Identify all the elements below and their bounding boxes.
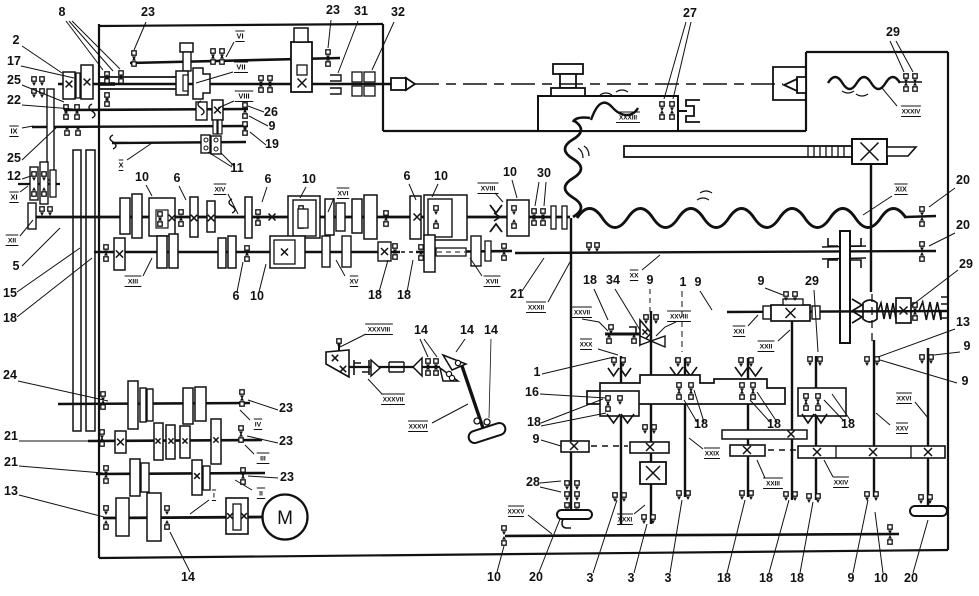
pedal <box>467 421 507 444</box>
svg-text:XXXI: XXXI <box>618 517 633 524</box>
svg-text:8: 8 <box>59 5 66 19</box>
svg-text:X: X <box>118 161 123 170</box>
diagonal shaft XXXVI <box>462 366 483 428</box>
svg-text:XXXV: XXXV <box>507 509 525 516</box>
shaft XXX line <box>605 333 641 336</box>
svg-text:20: 20 <box>956 173 970 187</box>
label 18 j <box>759 500 789 585</box>
svg-text:23: 23 <box>326 3 340 17</box>
svg-text:XXIX: XXIX <box>705 451 720 458</box>
gear on VII stepped <box>193 68 210 99</box>
shaft XXI line <box>727 311 947 312</box>
bevel wedge <box>326 350 349 377</box>
screws 28 <box>565 481 579 512</box>
screws 20 lower <box>920 242 924 261</box>
label 14 b <box>456 323 474 352</box>
label 9 b <box>695 275 712 310</box>
screws v4 top <box>676 358 690 367</box>
svg-text:13: 13 <box>956 315 970 329</box>
label 10 b <box>300 172 316 198</box>
gears XIII a <box>157 234 178 268</box>
label XIV <box>214 184 238 214</box>
shaft X right squiggle <box>229 199 235 213</box>
svg-text:6: 6 <box>233 289 240 303</box>
spring XXXIII <box>591 90 638 120</box>
label 9 hs <box>249 116 276 133</box>
svg-text:12: 12 <box>7 169 21 183</box>
clutch VIII X <box>212 100 223 134</box>
label 14 c <box>484 323 498 418</box>
label XXVIII <box>656 311 691 336</box>
label XXXII <box>526 262 570 313</box>
gears XIII d <box>322 236 351 267</box>
screws 25/22 <box>64 105 79 119</box>
shaft XIX end <box>906 216 936 217</box>
svg-text:XXXVIII: XXXVIII <box>368 327 391 334</box>
label 12 <box>7 169 31 183</box>
label XXII <box>758 330 790 352</box>
label 20 b1 <box>529 519 560 584</box>
svg-text:10: 10 <box>250 289 264 303</box>
label XXXVII <box>368 379 405 405</box>
label 15 <box>3 248 80 300</box>
svg-text:23: 23 <box>279 401 293 415</box>
svg-text:9: 9 <box>848 571 855 585</box>
label 29 r <box>911 257 973 306</box>
screws v8 top <box>865 357 879 366</box>
svg-text:32: 32 <box>391 5 405 19</box>
svg-text:34: 34 <box>606 273 620 287</box>
screws feed right <box>888 525 892 544</box>
label XXXIV <box>882 88 921 117</box>
label VI <box>226 31 245 57</box>
bevel cone right <box>413 358 422 376</box>
workpiece axis <box>415 83 783 85</box>
label I <box>190 490 216 514</box>
svg-text:14: 14 <box>414 323 428 337</box>
gear cluster XII b <box>149 198 183 236</box>
gear cluster XII i <box>414 195 468 240</box>
cone gear frame <box>587 375 785 404</box>
svg-text:XXVII: XXVII <box>574 310 591 317</box>
label 24 <box>3 368 108 401</box>
svg-text:XXII: XXII <box>760 344 773 351</box>
label 18 a <box>368 260 388 302</box>
shaft XII <box>32 216 570 219</box>
screws 27 <box>660 102 674 119</box>
label 25 b <box>7 128 56 165</box>
spring left <box>878 303 896 319</box>
screws 26 <box>259 76 272 92</box>
label 23 b <box>326 3 340 48</box>
motor M <box>263 495 308 540</box>
left block <box>600 391 639 416</box>
wall bearing flags <box>89 71 123 118</box>
label 10 d <box>503 165 517 198</box>
svg-text:23: 23 <box>141 5 155 19</box>
label XIX <box>863 184 908 215</box>
gears II <box>130 459 210 496</box>
shaft I <box>103 517 262 518</box>
svg-text:5: 5 <box>13 259 20 273</box>
clutch XIII e <box>378 242 397 261</box>
svg-text:XVIII: XVIII <box>481 186 496 193</box>
svg-text:M: M <box>277 508 293 529</box>
label 9 r1 <box>934 339 971 355</box>
vertical wavy shaft <box>565 118 590 217</box>
svg-text:18: 18 <box>3 311 17 325</box>
label XXI <box>733 315 758 337</box>
label 18 h <box>3 258 92 325</box>
label 10 e <box>250 264 266 303</box>
tailstock bolt collar <box>551 88 585 96</box>
label X <box>118 143 152 171</box>
label XIII <box>125 258 152 287</box>
barrel gear <box>863 300 877 322</box>
gear bar B <box>630 442 669 453</box>
label XVIII <box>477 183 503 202</box>
svg-text:10: 10 <box>503 165 517 179</box>
gears XII c <box>190 197 215 237</box>
svg-text:21: 21 <box>4 429 18 443</box>
svg-text:6: 6 <box>174 171 181 185</box>
label 18 d <box>684 390 708 431</box>
label XXIX <box>689 438 720 459</box>
svg-text:14: 14 <box>460 323 474 337</box>
universal fork <box>440 355 466 381</box>
label 16 <box>525 385 606 399</box>
svg-text:18: 18 <box>527 415 541 429</box>
vertical shaft 7 <box>815 356 817 500</box>
label II <box>235 480 265 499</box>
svg-text:XXVI: XXVI <box>897 396 912 403</box>
label 5 <box>13 228 60 273</box>
screw col right of VIII <box>243 103 247 135</box>
label XX <box>629 255 660 281</box>
svg-text:XXV: XXV <box>896 426 910 433</box>
svg-text:I: I <box>213 493 215 500</box>
coupling 32 <box>352 72 375 96</box>
label VIII <box>218 91 253 108</box>
svg-text:18: 18 <box>790 571 804 585</box>
screws II <box>104 466 245 484</box>
screws v7 bot <box>807 494 820 503</box>
label 3 a <box>587 500 617 585</box>
screws 8 left <box>32 77 44 98</box>
label XXXVIII <box>340 324 393 347</box>
screws 29 top-right <box>898 74 922 91</box>
screws v2 top <box>612 358 625 367</box>
screws under IX <box>65 126 80 135</box>
gears XII a <box>120 194 142 238</box>
label 1 a <box>680 275 687 352</box>
label 9 a <box>647 273 654 314</box>
label 1 b <box>534 357 614 379</box>
clutch XIII X <box>104 238 125 270</box>
gear cluster XII e <box>269 196 321 238</box>
rack teeth <box>808 146 844 157</box>
label 6 d <box>233 262 243 303</box>
svg-text:XIII: XIII <box>128 279 138 286</box>
gears pre-wave <box>551 206 567 229</box>
svg-text:IX: IX <box>10 127 17 136</box>
label 20 r1 <box>929 173 970 207</box>
svg-text:20: 20 <box>904 571 918 585</box>
label 3 b <box>628 524 647 585</box>
gear bar C <box>730 445 765 456</box>
shaft XIII <box>94 251 512 252</box>
label XII <box>6 220 33 246</box>
label 29 top-right <box>886 25 913 72</box>
screws v2 bot <box>613 493 626 502</box>
pinion box X <box>852 139 887 164</box>
shaft XI <box>18 183 60 185</box>
svg-text:9: 9 <box>964 339 971 353</box>
label 10 c <box>432 169 448 197</box>
screws III <box>100 426 243 446</box>
label 21 c <box>4 455 103 473</box>
svg-text:11: 11 <box>230 161 243 175</box>
svg-text:18: 18 <box>694 417 708 431</box>
top-right box top edge <box>806 51 948 53</box>
svg-text:XXI: XXI <box>734 329 745 336</box>
svg-text:26: 26 <box>264 105 278 119</box>
svg-text:19: 19 <box>265 137 279 151</box>
label XVI <box>328 188 349 212</box>
svg-text:13: 13 <box>4 484 18 498</box>
svg-text:XXXIV: XXXIV <box>902 109 922 116</box>
svg-text:29: 29 <box>805 274 819 288</box>
svg-text:XII: XII <box>8 238 16 245</box>
gears XIII b <box>218 236 249 268</box>
vertical shaft 2 <box>620 356 622 524</box>
label 19 <box>250 132 279 151</box>
clutch X bevel <box>896 298 911 323</box>
label 9 r2 <box>880 360 969 388</box>
joint circles <box>449 375 490 425</box>
gear cluster XI <box>30 162 56 204</box>
gears III <box>154 419 221 464</box>
label 2 <box>13 33 62 73</box>
housing right border <box>947 52 949 550</box>
collar XXI right <box>812 306 820 319</box>
svg-text:20: 20 <box>529 570 543 584</box>
label 14 a <box>414 323 437 357</box>
H coupling <box>354 360 380 376</box>
label XXIII <box>757 460 783 489</box>
chevrons v2 <box>608 368 631 376</box>
label 8 <box>59 5 120 71</box>
svg-text:18: 18 <box>767 417 781 431</box>
label 18 f <box>824 394 855 431</box>
clamp shaft stub <box>678 110 687 112</box>
pulley cluster on VII <box>63 65 93 99</box>
rack taper end <box>887 147 916 156</box>
two-shaft clutch <box>291 28 312 92</box>
svg-text:25: 25 <box>7 73 21 87</box>
svg-text:31: 31 <box>354 4 368 18</box>
label 23 d <box>247 434 293 448</box>
sleeve end cap <box>176 71 188 95</box>
screws 9 XXI <box>784 292 797 301</box>
svg-text:XIX: XIX <box>895 185 907 194</box>
label XI <box>9 186 28 203</box>
gear cluster 11 <box>201 135 221 154</box>
gears XII d <box>245 197 260 238</box>
chevrons v5 <box>735 367 762 376</box>
screws v5 top <box>739 358 753 367</box>
gear block XVIII <box>507 200 529 236</box>
chevrons v3 <box>670 367 697 376</box>
vertical shaft 9r <box>927 348 929 507</box>
vertical shaft 4 <box>684 358 686 497</box>
svg-text:1: 1 <box>680 275 687 289</box>
label 23 a <box>134 5 155 50</box>
big clutch <box>640 462 666 484</box>
tower v3 screws <box>677 383 693 399</box>
gear bar D <box>798 446 945 458</box>
dashes A-B <box>591 445 628 447</box>
axis dash below plate <box>871 294 873 344</box>
svg-text:20: 20 <box>956 218 970 232</box>
svg-text:XXXVII: XXXVII <box>383 397 404 404</box>
label 9 d <box>533 432 561 446</box>
coupling 31 <box>330 75 341 94</box>
label 22 <box>7 93 73 109</box>
spindle nose chuck <box>391 78 415 90</box>
label 9 c <box>758 274 783 295</box>
screws v3 top <box>644 315 658 324</box>
vertical shaft XXII <box>791 321 793 500</box>
label XVII <box>470 258 500 287</box>
label XXXVI <box>408 404 468 432</box>
shaft XXXVIII line <box>349 366 440 368</box>
svg-text:10: 10 <box>434 169 448 183</box>
gears IV a <box>128 381 153 429</box>
screws 14 <box>426 359 438 375</box>
label 6 c <box>404 169 416 200</box>
shaft III <box>88 440 262 441</box>
svg-text:27: 27 <box>683 6 697 20</box>
shift rail 2 <box>86 150 95 431</box>
tailstock body <box>538 96 678 131</box>
svg-text:21: 21 <box>4 455 18 469</box>
label 18 k <box>790 502 813 585</box>
clutch I <box>226 498 248 534</box>
label 18 c <box>583 273 608 320</box>
screws v8 bot <box>865 492 878 501</box>
pill XXXII bottom <box>557 510 592 528</box>
gears I <box>116 493 161 541</box>
svg-text:28: 28 <box>526 475 540 489</box>
label 17 <box>7 54 74 78</box>
label 23 c <box>248 400 293 415</box>
collar XXI left <box>763 306 771 319</box>
svg-text:XXXIII: XXXIII <box>619 115 637 122</box>
label 20 b2 <box>904 520 928 585</box>
gears XIII g <box>471 236 506 266</box>
svg-text:VIII: VIII <box>238 92 249 101</box>
label 11 <box>208 152 244 175</box>
herringbone XVIII <box>490 205 502 232</box>
label 21 b <box>4 429 104 443</box>
svg-text:XX: XX <box>629 273 639 280</box>
label 21 a <box>510 258 544 301</box>
label 26 <box>248 105 278 119</box>
screws bevel <box>913 303 917 320</box>
slide sleeve <box>389 362 404 372</box>
svg-text:10: 10 <box>135 170 149 184</box>
label 28 <box>526 475 561 492</box>
clamp bracket <box>686 100 700 122</box>
label 18 g <box>527 399 606 429</box>
label 32 <box>372 5 405 70</box>
shaft IV <box>58 403 250 404</box>
left rail upper <box>47 89 54 180</box>
spindle sleeve tube <box>99 77 176 89</box>
label 9 e <box>848 500 868 585</box>
screws v9 top <box>920 355 933 364</box>
label 6 b <box>262 172 272 202</box>
gears IV b <box>183 387 206 424</box>
label XXVII <box>572 307 608 331</box>
svg-text:21: 21 <box>510 287 524 301</box>
svg-text:9: 9 <box>695 275 702 289</box>
clutch III <box>115 431 126 453</box>
gears XII g <box>352 195 388 239</box>
oldham coupling <box>822 238 866 268</box>
bevel chevron <box>852 299 862 323</box>
clutch XXI <box>771 299 810 321</box>
housing mid ledge <box>383 130 806 132</box>
screws 30 <box>532 209 545 225</box>
left block chevron <box>607 414 634 423</box>
shaft X <box>112 142 246 143</box>
svg-text:10: 10 <box>487 570 501 584</box>
label 13 r <box>878 315 970 357</box>
svg-text:XXXVI: XXXVI <box>409 424 428 431</box>
svg-text:18: 18 <box>759 571 773 585</box>
housing left border <box>98 24 100 558</box>
svg-text:9: 9 <box>533 432 540 446</box>
svg-text:XI: XI <box>10 193 17 202</box>
screws v6 bot <box>784 492 797 501</box>
label XXIV <box>824 460 849 488</box>
label 3 c <box>665 500 682 585</box>
label 18 i <box>717 500 745 585</box>
label VII <box>196 62 248 83</box>
svg-text:16: 16 <box>525 385 539 399</box>
bracket 34 <box>629 327 636 333</box>
svg-text:10: 10 <box>302 172 316 186</box>
screws on VI left <box>132 51 136 66</box>
svg-text:IV: IV <box>255 422 262 429</box>
svg-text:18: 18 <box>841 417 855 431</box>
screws v5 bot <box>740 491 753 500</box>
svg-text:3: 3 <box>628 571 635 585</box>
shaft VI <box>130 58 340 63</box>
gear bar XXII <box>722 430 807 439</box>
tumbler gear <box>640 320 665 347</box>
label 23 e <box>248 470 294 484</box>
gear VIII box <box>196 102 207 120</box>
svg-text:25: 25 <box>7 151 21 165</box>
gear on VI <box>183 52 191 71</box>
label XXX <box>580 339 618 355</box>
label XXXV <box>507 506 552 534</box>
svg-text:9: 9 <box>962 374 969 388</box>
top-right box left edge <box>805 52 807 131</box>
